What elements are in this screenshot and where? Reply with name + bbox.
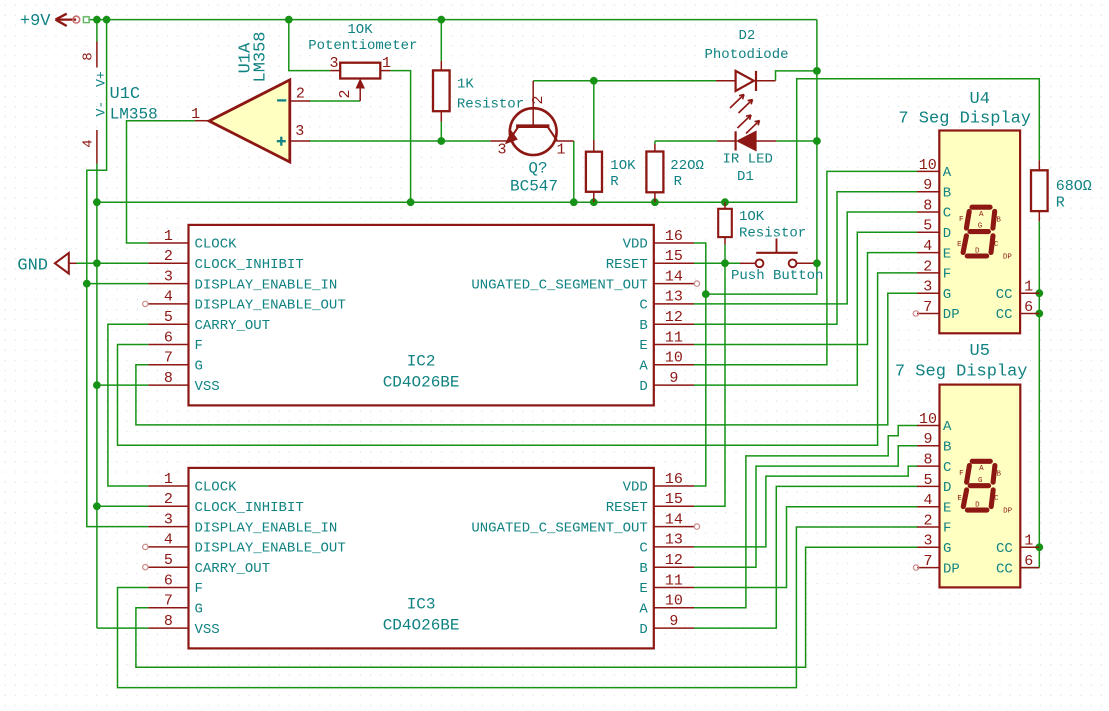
svg-text:E: E <box>957 495 962 503</box>
svg-text:VSS: VSS <box>195 379 220 395</box>
svg-text:C: C <box>994 495 999 503</box>
svg-text:B: B <box>996 216 1001 224</box>
svg-text:RESET: RESET <box>606 257 648 273</box>
svg-text:B: B <box>943 185 951 201</box>
svg-text:Resistor: Resistor <box>739 226 806 242</box>
svg-text:12: 12 <box>665 309 683 326</box>
svg-text:VDD: VDD <box>623 237 648 253</box>
svg-text:1OK: 1OK <box>347 22 373 38</box>
svg-text:BC547: BC547 <box>510 178 558 196</box>
svg-text:IR LED: IR LED <box>723 151 773 167</box>
svg-text:DISPLAY_ENABLE_IN: DISPLAY_ENABLE_IN <box>195 520 338 536</box>
svg-text:A: A <box>979 465 984 473</box>
svg-text:6: 6 <box>1024 299 1033 316</box>
svg-text:Photodiode: Photodiode <box>705 47 789 63</box>
svg-text:DISPLAY_ENABLE_IN: DISPLAY_ENABLE_IN <box>195 277 338 293</box>
svg-text:15: 15 <box>665 248 683 265</box>
svg-text:1OK: 1OK <box>610 158 636 174</box>
svg-text:VSS: VSS <box>195 622 220 638</box>
svg-text:D: D <box>975 501 980 509</box>
svg-text:DISPLAY_ENABLE_OUT: DISPLAY_ENABLE_OUT <box>195 298 346 314</box>
svg-text:Q?: Q? <box>528 160 547 178</box>
svg-text:9: 9 <box>923 177 932 194</box>
svg-text:16: 16 <box>665 471 683 488</box>
svg-text:7 Seg Display: 7 Seg Display <box>895 363 1028 382</box>
svg-text:7 Seg Display: 7 Seg Display <box>898 110 1031 129</box>
svg-text:1: 1 <box>1024 279 1033 296</box>
svg-text:7: 7 <box>164 593 173 610</box>
svg-text:5: 5 <box>164 552 173 569</box>
svg-text:CD4O26BE: CD4O26BE <box>383 617 460 635</box>
svg-text:4: 4 <box>164 289 173 306</box>
svg-text:C: C <box>639 541 647 557</box>
svg-text:G: G <box>943 541 951 557</box>
svg-text:CD4O26BE: CD4O26BE <box>383 374 460 392</box>
svg-text:2: 2 <box>337 89 354 98</box>
svg-text:1: 1 <box>556 142 565 159</box>
svg-text:D: D <box>975 247 980 255</box>
svg-text:E: E <box>957 241 962 249</box>
svg-text:UNGATED_C_SEGMENT_OUT: UNGATED_C_SEGMENT_OUT <box>471 277 647 293</box>
svg-text:10: 10 <box>919 411 937 428</box>
svg-text:CLOCK_INHIBIT: CLOCK_INHIBIT <box>195 500 304 516</box>
svg-text:1: 1 <box>1024 533 1033 550</box>
svg-text:6: 6 <box>164 572 173 589</box>
svg-text:F: F <box>195 581 203 597</box>
svg-text:R: R <box>610 174 619 190</box>
svg-text:14: 14 <box>665 511 683 528</box>
svg-text:E: E <box>943 246 951 262</box>
svg-text:3: 3 <box>329 55 338 72</box>
svg-text:E: E <box>639 338 647 354</box>
svg-text:D: D <box>639 622 647 638</box>
svg-text:A: A <box>979 211 984 219</box>
svg-text:CARRY_OUT: CARRY_OUT <box>195 561 271 577</box>
svg-text:A: A <box>639 359 648 375</box>
svg-text:G: G <box>195 602 203 618</box>
svg-text:G: G <box>978 477 983 485</box>
svg-text:IC2: IC2 <box>407 353 436 371</box>
svg-text:10: 10 <box>665 350 683 367</box>
svg-text:C: C <box>639 298 647 314</box>
svg-text:F: F <box>943 521 951 537</box>
svg-text:DISPLAY_ENABLE_OUT: DISPLAY_ENABLE_OUT <box>195 541 346 557</box>
svg-text:7: 7 <box>923 553 932 570</box>
svg-text:3: 3 <box>923 533 932 550</box>
svg-text:G: G <box>943 287 951 303</box>
svg-text:B: B <box>639 561 647 577</box>
svg-text:CLOCK: CLOCK <box>195 237 238 253</box>
svg-text:VDD: VDD <box>623 480 648 496</box>
svg-text:CLOCK: CLOCK <box>195 480 238 496</box>
svg-text:CC: CC <box>996 541 1013 557</box>
svg-text:2: 2 <box>923 512 932 529</box>
svg-text:B: B <box>997 471 1002 479</box>
svg-text:6: 6 <box>1024 553 1033 570</box>
svg-text:8: 8 <box>923 452 932 469</box>
svg-text:5: 5 <box>923 218 932 235</box>
svg-text:D2: D2 <box>739 28 756 44</box>
svg-text:LM358: LM358 <box>252 31 271 82</box>
svg-text:UNGATED_C_SEGMENT_OUT: UNGATED_C_SEGMENT_OUT <box>471 520 647 536</box>
svg-text:5: 5 <box>164 309 173 326</box>
svg-text:7: 7 <box>164 350 173 367</box>
svg-text:2: 2 <box>923 258 932 275</box>
svg-text:G: G <box>195 359 203 375</box>
svg-text:U5: U5 <box>970 342 990 361</box>
svg-text:B: B <box>943 440 951 456</box>
svg-text:CC: CC <box>996 287 1013 303</box>
svg-text:F: F <box>943 267 951 283</box>
svg-text:F: F <box>959 470 964 478</box>
svg-text:D: D <box>639 379 647 395</box>
svg-text:CC: CC <box>996 561 1013 577</box>
svg-text:13: 13 <box>665 532 683 549</box>
svg-text:RESET: RESET <box>606 500 648 516</box>
svg-text:4: 4 <box>81 139 97 147</box>
svg-text:10: 10 <box>665 593 683 610</box>
svg-text:IC3: IC3 <box>407 596 436 614</box>
svg-text:4: 4 <box>164 532 173 549</box>
svg-text:G: G <box>978 223 983 231</box>
svg-text:13: 13 <box>665 289 683 306</box>
svg-text:LM358: LM358 <box>110 106 158 124</box>
svg-text:DP: DP <box>943 561 960 577</box>
svg-text:2: 2 <box>530 95 547 104</box>
svg-text:F: F <box>195 338 203 354</box>
svg-text:11: 11 <box>665 329 683 346</box>
svg-text:U1C: U1C <box>110 85 141 104</box>
svg-text:D1: D1 <box>737 169 754 185</box>
svg-text:V+: V+ <box>94 71 109 87</box>
svg-text:E: E <box>639 581 647 597</box>
svg-text:15: 15 <box>665 491 683 508</box>
svg-text:2: 2 <box>164 248 173 265</box>
svg-text:3: 3 <box>497 142 506 159</box>
svg-text:10: 10 <box>919 157 937 174</box>
svg-text:Push Button: Push Button <box>731 268 823 284</box>
svg-text:2: 2 <box>296 85 305 102</box>
svg-text:CC: CC <box>996 307 1013 323</box>
svg-text:6: 6 <box>164 329 173 346</box>
svg-text:1: 1 <box>382 55 391 72</box>
svg-text:68OΩ: 68OΩ <box>1056 178 1092 195</box>
svg-text:R: R <box>674 174 683 190</box>
svg-text:D: D <box>943 226 951 242</box>
svg-text:B: B <box>639 318 647 334</box>
svg-text:CLOCK_INHIBIT: CLOCK_INHIBIT <box>195 257 304 273</box>
svg-text:DP: DP <box>943 307 960 323</box>
svg-text:V-: V- <box>94 101 109 117</box>
svg-text:9: 9 <box>669 613 678 630</box>
svg-text:8: 8 <box>164 613 173 630</box>
svg-text:8: 8 <box>923 197 932 214</box>
svg-text:7: 7 <box>923 299 932 316</box>
svg-text:4: 4 <box>923 238 932 255</box>
svg-text:1: 1 <box>164 471 173 488</box>
svg-text:GND: GND <box>17 257 48 276</box>
svg-text:3: 3 <box>164 268 173 285</box>
svg-text:1: 1 <box>164 228 173 245</box>
svg-text:12: 12 <box>665 552 683 569</box>
svg-text:8: 8 <box>81 52 97 60</box>
svg-text:C: C <box>943 206 951 222</box>
svg-text:D: D <box>943 480 951 496</box>
svg-text:2: 2 <box>164 491 173 508</box>
svg-text:C: C <box>994 241 999 249</box>
svg-text:9: 9 <box>669 370 678 387</box>
svg-text:3: 3 <box>923 279 932 296</box>
svg-text:A: A <box>639 602 648 618</box>
svg-text:DP: DP <box>1003 254 1013 262</box>
svg-text:U4: U4 <box>970 90 990 109</box>
svg-text:DP: DP <box>1003 508 1013 516</box>
svg-text:11: 11 <box>665 572 683 589</box>
svg-text:C: C <box>943 460 951 476</box>
svg-text:E: E <box>943 500 951 516</box>
svg-text:Resistor: Resistor <box>457 97 524 113</box>
svg-text:F: F <box>959 216 964 224</box>
svg-text:14: 14 <box>665 268 683 285</box>
svg-text:3: 3 <box>295 123 304 140</box>
svg-text:1: 1 <box>191 106 200 123</box>
svg-text:R: R <box>1056 194 1065 211</box>
svg-text:1K: 1K <box>457 77 474 93</box>
svg-text:Potentiometer: Potentiometer <box>308 38 417 54</box>
svg-text:CARRY_OUT: CARRY_OUT <box>195 318 271 334</box>
svg-text:16: 16 <box>665 228 683 245</box>
svg-text:22OΩ: 22OΩ <box>670 158 704 174</box>
svg-text:5: 5 <box>923 472 932 489</box>
svg-text:3: 3 <box>164 511 173 528</box>
svg-text:9: 9 <box>923 431 932 448</box>
svg-text:A: A <box>943 165 952 181</box>
svg-text:8: 8 <box>164 370 173 387</box>
svg-text:A: A <box>943 419 952 435</box>
svg-text:1OK: 1OK <box>739 209 765 225</box>
svg-text:4: 4 <box>923 492 932 509</box>
svg-text:+9V: +9V <box>20 12 51 31</box>
